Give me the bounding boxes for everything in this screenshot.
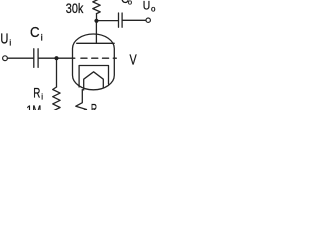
svg-text:o: o [151, 4, 156, 13]
svg-text:V: V [130, 52, 137, 69]
svg-text:1M: 1M [26, 102, 41, 110]
svg-text:i: i [41, 92, 43, 101]
svg-text:o: o [128, 0, 132, 6]
svg-text:i: i [9, 38, 11, 47]
svg-text:i: i [41, 32, 43, 43]
svg-text:U: U [0, 32, 8, 48]
svg-text:R: R [91, 100, 97, 110]
svg-text:C: C [30, 25, 40, 41]
svg-text:U: U [143, 0, 151, 12]
svg-text:30k: 30k [66, 1, 84, 16]
svg-text:R: R [33, 84, 40, 100]
